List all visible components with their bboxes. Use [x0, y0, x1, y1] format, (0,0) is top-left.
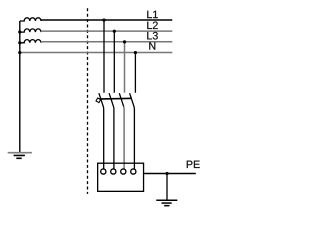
- switch Q1 linkage bar: [97, 97, 132, 100]
- node L3 tap: [123, 40, 126, 43]
- switch Q1 pole1 blade and lower conductor: [99, 93, 104, 168]
- label N: [149, 42, 155, 49]
- ground (PE earth symbol): [156, 200, 177, 205]
- left vertical bus: [19, 21, 21, 152]
- wire L1 drop: [103, 20, 105, 93]
- wire L2 line: [41, 30, 172, 32]
- wire PE line: [144, 173, 196, 175]
- label L3: [147, 32, 158, 40]
- terminal 1: [101, 169, 106, 174]
- label L2: [147, 22, 157, 29]
- terminal 3: [121, 169, 126, 174]
- node L1 tap: [102, 18, 105, 21]
- wire L3 line: [41, 41, 172, 43]
- wire PE ground drop: [166, 174, 168, 201]
- node L2 tap: [113, 30, 116, 33]
- wire L2 drop: [113, 31, 115, 93]
- wire N line: [20, 52, 173, 54]
- node bus-L2 junction: [18, 30, 21, 33]
- terminal 2: [111, 169, 116, 174]
- winding W2 (L2 phase): [20, 29, 41, 32]
- switch Q1 pole3 blade: [119, 93, 123, 106]
- node bus-N junction: [18, 51, 21, 54]
- winding W1 (L1 phase): [20, 18, 41, 21]
- ground (transformer neutral earth symbol): [8, 153, 32, 159]
- winding W3 (L3 phase): [20, 40, 41, 43]
- terminal 4: [131, 169, 136, 174]
- label L1: [147, 11, 158, 18]
- node bus-L3 junction: [18, 41, 21, 44]
- node N tap: [134, 51, 137, 54]
- wire pole3 lower conductor: [123, 107, 125, 169]
- switch Q1 pole2 blade and lower conductor: [109, 93, 114, 168]
- wire N drop: [134, 53, 136, 93]
- dashed boundary line: [87, 8, 89, 194]
- switch Q1 pole4 blade and lower conductor: [130, 93, 135, 168]
- wire L1 line: [41, 19, 172, 21]
- load box: [98, 163, 144, 191]
- wire L3 drop: [124, 42, 126, 93]
- switch Q1 handle square: [96, 98, 101, 103]
- node PE junction: [165, 172, 168, 175]
- label PE: [187, 161, 200, 168]
